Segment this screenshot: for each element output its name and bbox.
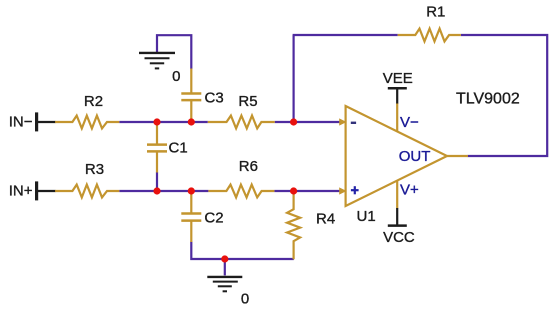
svg-text:R2: R2 xyxy=(84,93,103,110)
svg-text:0: 0 xyxy=(172,68,180,85)
node junction B1 xyxy=(153,187,160,194)
wire row A right (R5 to inverting input) xyxy=(275,121,341,123)
node junction B2 xyxy=(188,187,195,194)
svg-text:R4: R4 xyxy=(316,211,335,228)
resistor R1 xyxy=(398,4,461,42)
resistor R3 xyxy=(55,161,119,197)
capacitor C3 xyxy=(181,69,223,123)
wire feedback left vertical xyxy=(293,35,295,122)
wire row A left (IN- to R5) xyxy=(119,121,208,123)
op-amp plus symbol xyxy=(351,186,359,194)
resistor R4 xyxy=(287,191,335,259)
node junction A1 xyxy=(153,118,160,125)
ground 0 (bottom) xyxy=(207,277,249,308)
svg-text:VEE: VEE xyxy=(383,70,413,87)
svg-text:C2: C2 xyxy=(204,210,223,227)
wire ground link top xyxy=(157,35,191,69)
wire top rail left of R1 xyxy=(293,34,398,36)
wire row B left (IN+ to R6) xyxy=(119,190,208,192)
svg-text:U1: U1 xyxy=(357,208,376,225)
op-amp minus symbol xyxy=(351,122,356,124)
wire output lead xyxy=(447,155,468,157)
node junction B3 R4 xyxy=(290,187,297,194)
wire ground stub bottom xyxy=(224,259,226,275)
svg-text:C1: C1 xyxy=(169,140,188,157)
op-amp U1 xyxy=(346,106,447,225)
pin VEE xyxy=(383,70,413,132)
wire C2 bottom to ground rail xyxy=(191,242,293,260)
svg-text:V+: V+ xyxy=(400,182,419,199)
port IN+ xyxy=(9,181,56,200)
svg-text:R3: R3 xyxy=(85,161,104,178)
node junction ground rail xyxy=(221,255,228,262)
resistor R2 xyxy=(55,93,119,128)
svg-text:TLV9002: TLV9002 xyxy=(456,91,520,108)
svg-text:0: 0 xyxy=(241,291,249,308)
svg-text:R1: R1 xyxy=(426,4,445,21)
svg-text:R6: R6 xyxy=(239,158,258,175)
svg-text:R5: R5 xyxy=(238,93,257,110)
ground 0 (top) xyxy=(139,53,180,85)
node junction A2 xyxy=(188,118,195,125)
svg-text:IN−: IN− xyxy=(9,114,33,131)
wire C1 bottom to node B xyxy=(156,172,158,191)
op-amp non-inverting input arrowhead xyxy=(339,187,346,194)
svg-text:VCC: VCC xyxy=(383,229,415,246)
capacitor C2 xyxy=(181,191,223,242)
op-amp inverting input arrowhead xyxy=(339,118,346,125)
resistor R5 xyxy=(208,93,275,128)
wire row B right (R6 to non-inverting input) xyxy=(274,190,340,192)
svg-text:OUT: OUT xyxy=(399,148,431,165)
svg-text:IN+: IN+ xyxy=(9,183,33,200)
svg-text:C3: C3 xyxy=(205,90,224,107)
pin VCC xyxy=(383,180,415,246)
svg-text:V−: V− xyxy=(400,114,419,131)
node junction A3 feedback xyxy=(290,118,297,125)
wire top rail right of R1 to output xyxy=(461,35,547,156)
capacitor C1 xyxy=(147,122,188,173)
resistor R6 xyxy=(208,158,274,197)
port IN- xyxy=(9,112,56,131)
